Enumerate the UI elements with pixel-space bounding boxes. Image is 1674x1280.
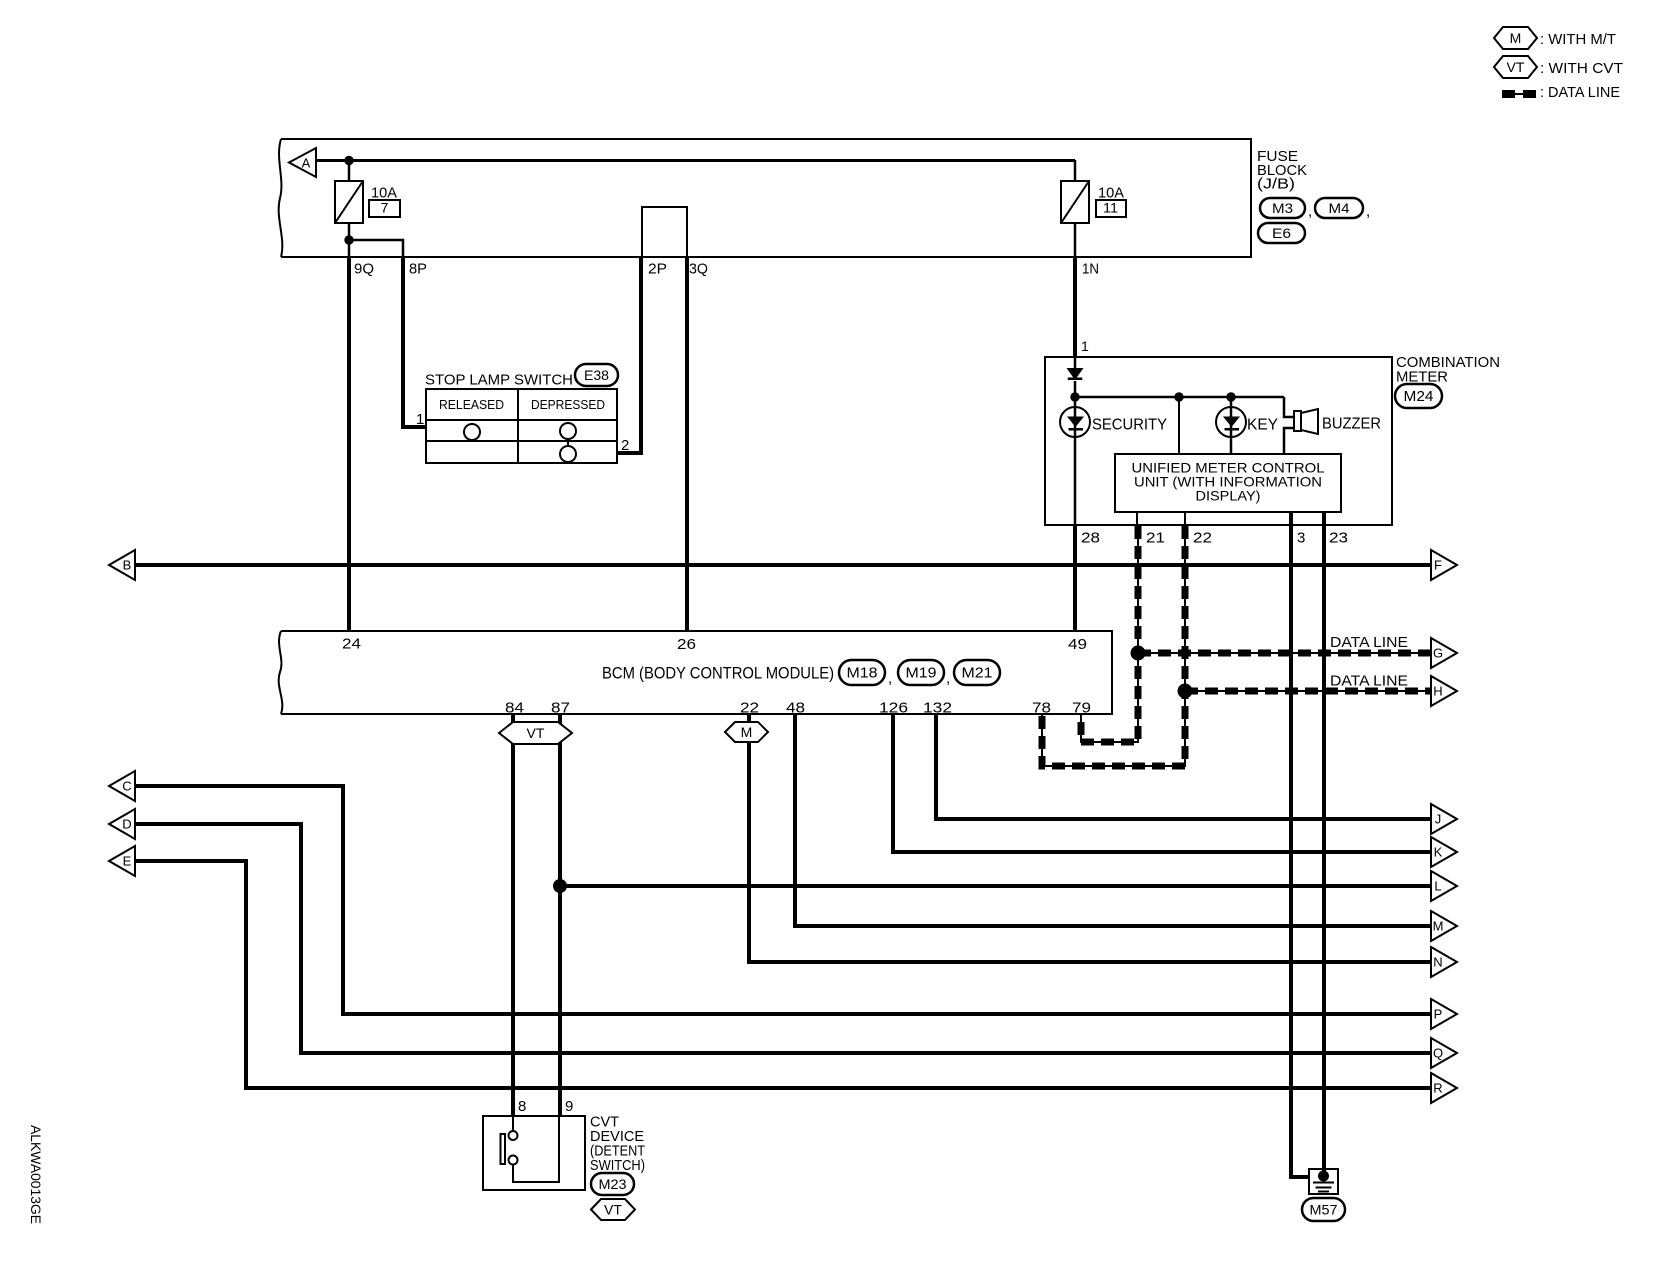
svg-text:: WITH CVT: : WITH CVT [1540, 60, 1623, 77]
svg-text:87: 87 [551, 700, 570, 717]
svg-text:F: F [1434, 558, 1442, 573]
svg-text:132: 132 [923, 700, 952, 717]
svg-text:28: 28 [1081, 530, 1100, 547]
svg-text:7: 7 [381, 200, 389, 216]
svg-text:RELEASED: RELEASED [439, 397, 504, 412]
svg-text:3Q: 3Q [689, 261, 708, 278]
svg-text:N: N [1433, 955, 1442, 970]
svg-text:DATA LINE: DATA LINE [1330, 634, 1408, 651]
svg-text:A: A [302, 156, 311, 171]
svg-text:M23: M23 [599, 1176, 627, 1192]
svg-text:P: P [1434, 1007, 1443, 1022]
svg-text:E38: E38 [584, 368, 609, 383]
svg-text:84: 84 [505, 700, 524, 717]
svg-text:J: J [1435, 812, 1442, 827]
svg-text:E: E [123, 854, 132, 869]
svg-text:1N: 1N [1082, 261, 1099, 278]
svg-text:DISPLAY): DISPLAY) [1196, 488, 1261, 504]
svg-text:M3: M3 [1272, 201, 1293, 216]
svg-text:,: , [1366, 203, 1370, 220]
svg-text:M: M [741, 724, 753, 740]
svg-text:BUZZER: BUZZER [1322, 416, 1381, 433]
svg-text:26: 26 [677, 636, 696, 653]
svg-text:VT: VT [604, 1202, 622, 1218]
svg-text:: WITH M/T: : WITH M/T [1540, 31, 1616, 48]
svg-text:21: 21 [1146, 530, 1165, 547]
svg-text:,: , [1308, 203, 1312, 220]
svg-text:126: 126 [879, 700, 908, 717]
svg-text:BCM (BODY CONTROL MODULE): BCM (BODY CONTROL MODULE) [602, 664, 834, 683]
svg-text:49: 49 [1068, 636, 1087, 653]
svg-text:M24: M24 [1404, 388, 1434, 405]
svg-text:48: 48 [786, 700, 805, 717]
svg-text:DATA LINE: DATA LINE [1330, 673, 1408, 690]
svg-text:SWITCH): SWITCH) [590, 1157, 645, 1174]
svg-text:L: L [1434, 879, 1441, 894]
svg-text:D: D [122, 817, 131, 832]
svg-text:G: G [1433, 646, 1443, 661]
svg-text:M: M [1433, 919, 1444, 934]
svg-text:79: 79 [1072, 700, 1091, 717]
svg-text:H: H [1433, 684, 1442, 699]
svg-text:24: 24 [342, 636, 361, 653]
svg-text:1: 1 [416, 411, 424, 428]
svg-text:8: 8 [518, 1098, 526, 1115]
svg-text:2P: 2P [648, 261, 667, 278]
svg-text:VT: VT [1507, 59, 1525, 75]
svg-text:78: 78 [1032, 700, 1051, 717]
svg-text:22: 22 [1193, 530, 1212, 547]
svg-text:M21: M21 [962, 665, 993, 682]
svg-text:K: K [1434, 845, 1443, 860]
svg-text:M19: M19 [906, 665, 937, 682]
svg-text:M: M [1510, 30, 1522, 46]
svg-text:M57: M57 [1310, 1202, 1338, 1218]
svg-text:B: B [123, 558, 132, 573]
svg-text:2: 2 [621, 437, 629, 454]
svg-text:23: 23 [1329, 530, 1348, 547]
svg-text:STOP LAMP SWITCH: STOP LAMP SWITCH [425, 372, 573, 389]
svg-text:R: R [1433, 1081, 1442, 1096]
svg-text:1: 1 [1081, 338, 1089, 354]
svg-text:M18: M18 [847, 665, 878, 682]
svg-text:9: 9 [565, 1098, 573, 1115]
svg-text:,: , [888, 670, 892, 687]
svg-text:22: 22 [740, 700, 759, 717]
svg-text:8P: 8P [409, 261, 427, 278]
svg-text:E6: E6 [1272, 226, 1291, 241]
svg-text:9Q: 9Q [354, 261, 374, 278]
svg-text:M4: M4 [1329, 201, 1351, 216]
svg-text:11: 11 [1103, 200, 1118, 216]
svg-text:C: C [122, 779, 131, 794]
svg-text:: DATA LINE: : DATA LINE [1540, 84, 1620, 101]
svg-text:ALKWA0013GE: ALKWA0013GE [28, 1125, 44, 1224]
svg-text:,: , [946, 670, 950, 687]
svg-text:(J/B): (J/B) [1257, 176, 1295, 193]
svg-text:SECURITY: SECURITY [1092, 417, 1167, 434]
svg-text:VT: VT [527, 725, 545, 741]
svg-text:3: 3 [1297, 530, 1305, 547]
svg-text:DEPRESSED: DEPRESSED [531, 397, 605, 412]
svg-text:Q: Q [1433, 1046, 1443, 1061]
svg-text:KEY: KEY [1247, 417, 1278, 434]
